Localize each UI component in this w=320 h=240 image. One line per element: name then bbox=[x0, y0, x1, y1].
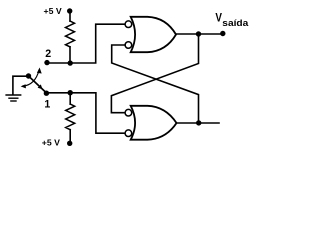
svg-text:1: 1 bbox=[44, 99, 50, 111]
wire: U1b output bbox=[177, 122, 220, 124]
wire: +5V to resistor R1 bbox=[69, 11, 71, 21]
switch toggle arrow (curved, two heads) bbox=[23, 70, 40, 86]
+5V terminal dot (top) bbox=[67, 8, 72, 13]
switch S1 pole dot bbox=[26, 73, 31, 78]
svg-text:2: 2 bbox=[45, 48, 51, 60]
U1a input bubble (pin, lower) bbox=[125, 42, 132, 49]
junction dot node 2 / R1 bbox=[68, 60, 73, 65]
label Vsaida bbox=[215, 10, 249, 29]
svg-text:+5 V: +5 V bbox=[42, 138, 60, 148]
NAND gate U1b (negative-OR symbol, bottom) bbox=[131, 106, 177, 140]
svg-text:V: V bbox=[215, 10, 222, 24]
ground bbox=[6, 95, 21, 101]
wire: feedback U1b output to U1a lower input (cross) bbox=[112, 45, 199, 123]
+5 V supply label (bottom) bbox=[42, 138, 60, 148]
+5V terminal dot (bottom) bbox=[67, 141, 72, 146]
svg-text:saída: saída bbox=[222, 18, 249, 29]
label 2 (switch contact) bbox=[45, 48, 51, 60]
U1b input bubble (pin, lower) bbox=[125, 130, 132, 137]
wire: pole to ground bbox=[13, 76, 29, 94]
U1b input bubble (pin, upper) bbox=[125, 109, 132, 116]
wire: contact 2 to node-2 corner bbox=[47, 24, 125, 63]
wire: node 1 to resistor R2 bbox=[69, 93, 71, 104]
svg-text:+5 V: +5 V bbox=[44, 6, 62, 16]
label 1 (switch contact) bbox=[44, 99, 50, 111]
node Vsaida terminal dot bbox=[220, 31, 225, 36]
junction dot U1a output bbox=[196, 31, 201, 36]
switch S1 arm (to contact 1) bbox=[29, 76, 47, 93]
wire: U1a output bbox=[176, 33, 223, 35]
switch arm arrowhead bbox=[38, 84, 43, 89]
wire: feedback U1a output to U1b upper input (cross) bbox=[111, 34, 198, 113]
wire: R2 bottom to +5V bbox=[69, 130, 71, 144]
wire: R1 bottom to node 2 bbox=[69, 47, 71, 63]
resistor R2 bbox=[66, 104, 75, 130]
+5 V supply label (top) bbox=[44, 6, 62, 16]
junction dot node 1 / R2 bbox=[68, 90, 73, 95]
contact 2 dot bbox=[44, 60, 49, 65]
U1a input bubble (pin, upper) bbox=[125, 21, 132, 28]
junction dot U1b output bbox=[196, 120, 201, 125]
contact 1 dot bbox=[44, 91, 49, 96]
wire: contact 1 / node 1 to bottom gate lower input bbox=[46, 93, 125, 133]
resistor R1 bbox=[66, 21, 75, 47]
NAND gate U1a (negative-OR symbol, top) bbox=[131, 17, 176, 52]
